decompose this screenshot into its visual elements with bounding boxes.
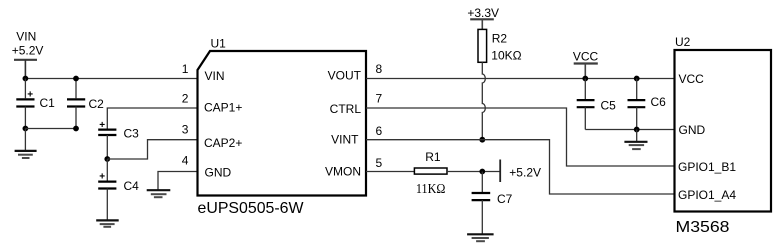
svg-text:+5.2V: +5.2V (12, 44, 44, 58)
wire R2 to VINT with hops over VOUT and CTRL (482, 62, 485, 139)
svg-text:VMON: VMON (325, 164, 361, 178)
wire CTRL to U2 GPIO1_B1 (366, 108, 675, 166)
svg-text:C7: C7 (497, 192, 513, 206)
capacitor C2 (67, 79, 104, 129)
svg-text:+3.3V: +3.3V (467, 6, 499, 20)
transistor U2 M3568 box (675, 35, 772, 236)
svg-text:8: 8 (376, 62, 383, 76)
capacitor C7 (472, 172, 513, 235)
resistor R2 (478, 29, 522, 62)
svg-text:6: 6 (376, 124, 383, 138)
svg-text:3: 3 (182, 123, 189, 137)
svg-text:VCC: VCC (573, 50, 599, 64)
node junction R1/C7 (479, 169, 485, 175)
node junction C2 top (73, 76, 79, 82)
node junction C6 top (634, 76, 640, 82)
wire U1 pin 2 CAP1+ (107, 108, 197, 121)
ground below C1 (15, 129, 37, 159)
wire junction to U1 pin 3 CAP2+ (107, 140, 197, 159)
node junction C3/C4 (104, 156, 110, 162)
ground below C4 (96, 220, 119, 226)
svg-text:GND: GND (679, 123, 706, 137)
svg-text:C5: C5 (601, 99, 617, 113)
power symbol VIN +5.2V (12, 29, 44, 78)
svg-text:1: 1 (182, 62, 189, 76)
svg-text:CAP2+: CAP2+ (204, 136, 242, 150)
svg-text:VINT: VINT (331, 132, 359, 146)
wire VIN to U1 pin 1 (25, 78, 197, 80)
svg-text:C4: C4 (124, 179, 140, 193)
wire VOUT to U2 VCC (366, 78, 675, 80)
power symbol +5.2V right (500, 160, 541, 183)
svg-text:VIN: VIN (205, 69, 225, 83)
svg-text:C2: C2 (89, 97, 105, 111)
node junction R2/VINT (479, 137, 485, 143)
capacitor C5 (577, 79, 616, 130)
svg-text:C6: C6 (651, 95, 667, 109)
svg-text:R2: R2 (492, 32, 508, 46)
svg-text:C3: C3 (124, 127, 140, 141)
svg-text:eUPS0505-6W: eUPS0505-6W (198, 200, 305, 217)
svg-text:CAP1+: CAP1+ (204, 100, 242, 114)
ground below C7 (467, 234, 494, 241)
wire R1 to +5.2V bar (447, 171, 500, 173)
svg-text:VIN: VIN (16, 29, 36, 43)
svg-text:10KΩ: 10KΩ (491, 48, 521, 62)
svg-text:GND: GND (205, 166, 232, 180)
svg-text:4: 4 (182, 153, 189, 167)
node junction at VIN/C1 (23, 76, 29, 82)
svg-text:GPIO1_B1: GPIO1_B1 (678, 160, 736, 174)
svg-text:U2: U2 (675, 35, 691, 49)
node junction C1 bottom (23, 126, 29, 132)
svg-text:11KΩ: 11KΩ (416, 181, 446, 196)
resistor R1 (414, 150, 447, 196)
wire VMON to R1 (366, 171, 414, 173)
svg-text:R1: R1 (425, 150, 441, 164)
op-amp U1 eUPS0505-6W box (198, 37, 367, 217)
capacitor C6 (628, 79, 667, 130)
wire C5 bottom to U2 GND (585, 129, 674, 131)
svg-text:M3568: M3568 (676, 219, 730, 236)
ground at U1 pin 4 (147, 190, 171, 197)
svg-text:VCC: VCC (679, 72, 705, 86)
svg-text:2: 2 (182, 91, 189, 105)
capacitor C4 (98, 159, 139, 220)
wire VINT to U2 GPIO1_A4 (366, 140, 675, 194)
capacitor C3 (98, 120, 139, 159)
power symbol +3.3V (467, 6, 499, 29)
svg-text:VOUT: VOUT (328, 69, 362, 83)
node junction VCC/C5 (582, 76, 588, 82)
svg-text:GPIO1_A4: GPIO1_A4 (678, 188, 736, 202)
svg-text:5: 5 (376, 156, 383, 170)
svg-text:C1: C1 (40, 96, 56, 110)
svg-text:CTRL: CTRL (330, 102, 362, 116)
wire U1 pin 4 GND to ground (158, 172, 198, 190)
svg-text:U1: U1 (211, 37, 227, 51)
svg-text:7: 7 (376, 91, 383, 105)
power symbol VCC (573, 50, 599, 79)
svg-text:+5.2V: +5.2V (509, 165, 541, 179)
capacitor C1 (16, 79, 55, 129)
node junction C6 bottom (634, 127, 640, 133)
node junction C2 bottom (73, 126, 79, 132)
ground below C6 (624, 130, 647, 150)
wire C1 bottom to C2 bottom (25, 128, 76, 130)
